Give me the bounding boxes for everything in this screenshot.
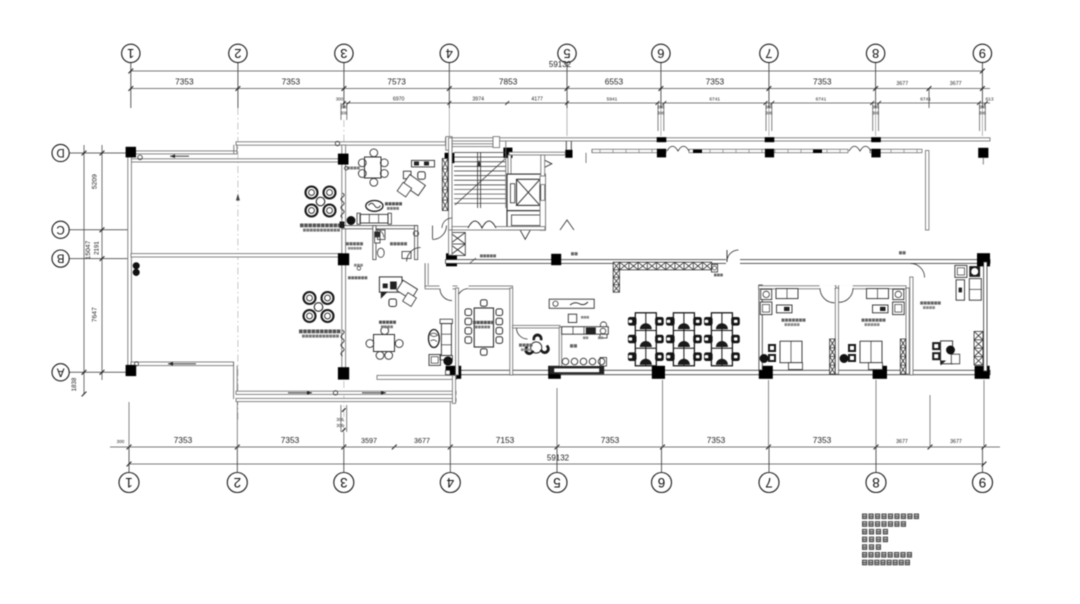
svg-text:8: 8 [872,475,880,490]
svg-text:1: 1 [125,475,133,490]
svg-text:306: 306 [979,111,987,116]
svg-text:6741: 6741 [816,96,827,102]
svg-text:7353: 7353 [282,77,301,87]
svg-text:613: 613 [985,96,993,102]
svg-text:59132: 59132 [547,454,570,463]
svg-text:7853: 7853 [499,77,518,87]
svg-text:9: 9 [979,46,986,61]
svg-text:306: 306 [657,111,665,116]
svg-text:D: D [56,146,64,158]
svg-text:6970: 6970 [393,96,405,102]
svg-text:3: 3 [340,46,347,61]
svg-text:300: 300 [336,96,344,101]
svg-text:6741: 6741 [709,96,720,102]
svg-text:6: 6 [658,475,666,490]
svg-text:4: 4 [446,46,453,61]
svg-text:3677: 3677 [896,439,908,445]
svg-text:7353: 7353 [601,435,620,445]
svg-text:C: C [56,223,64,235]
svg-text:306: 306 [340,111,348,116]
svg-text:7: 7 [765,46,772,61]
svg-text:7153: 7153 [496,435,515,445]
svg-text:306: 306 [340,105,348,110]
svg-text:7573: 7573 [387,77,406,87]
svg-text:7353: 7353 [813,77,832,87]
svg-text:3677: 3677 [896,81,908,87]
svg-text:15047: 15047 [85,240,92,259]
svg-text:7353: 7353 [175,77,194,87]
svg-text:1: 1 [127,46,134,61]
svg-text:4: 4 [446,475,454,490]
svg-text:7353: 7353 [281,435,300,445]
svg-text:4177: 4177 [531,96,543,102]
svg-text:306: 306 [336,423,344,428]
svg-text:306: 306 [765,105,773,110]
svg-text:59132: 59132 [549,60,572,69]
svg-text:306: 306 [979,105,987,110]
svg-text:6741: 6741 [920,96,931,102]
svg-text:306: 306 [657,105,665,110]
svg-text:5941: 5941 [607,96,618,102]
svg-text:306: 306 [336,417,344,422]
svg-text:2191: 2191 [94,241,101,255]
svg-text:3974: 3974 [472,96,484,102]
svg-text:6: 6 [657,46,664,61]
svg-text:A: A [56,365,64,377]
svg-text:6553: 6553 [605,77,624,87]
svg-text:3677: 3677 [950,81,962,87]
svg-text:3597: 3597 [361,436,377,445]
svg-text:2: 2 [234,475,242,490]
svg-text:7353: 7353 [174,435,193,445]
svg-text:5: 5 [563,46,570,61]
svg-text:300: 300 [117,439,125,444]
svg-text:7353: 7353 [813,435,832,445]
svg-text:3677: 3677 [414,436,430,445]
svg-text:1838: 1838 [71,377,78,391]
svg-text:3677: 3677 [950,439,962,445]
svg-text:306: 306 [872,105,880,110]
svg-text:5: 5 [553,475,561,490]
svg-text:B: B [56,252,64,264]
svg-text:3: 3 [340,475,348,490]
svg-text:7353: 7353 [707,435,726,445]
svg-text:7647: 7647 [92,307,99,322]
svg-text:306: 306 [765,111,773,116]
svg-text:7: 7 [765,475,773,490]
svg-text:306: 306 [872,111,880,116]
svg-text:7353: 7353 [706,77,725,87]
svg-text:2: 2 [234,46,241,61]
svg-text:8: 8 [872,46,879,61]
svg-text:9: 9 [979,475,987,490]
svg-text:5209: 5209 [92,174,99,189]
